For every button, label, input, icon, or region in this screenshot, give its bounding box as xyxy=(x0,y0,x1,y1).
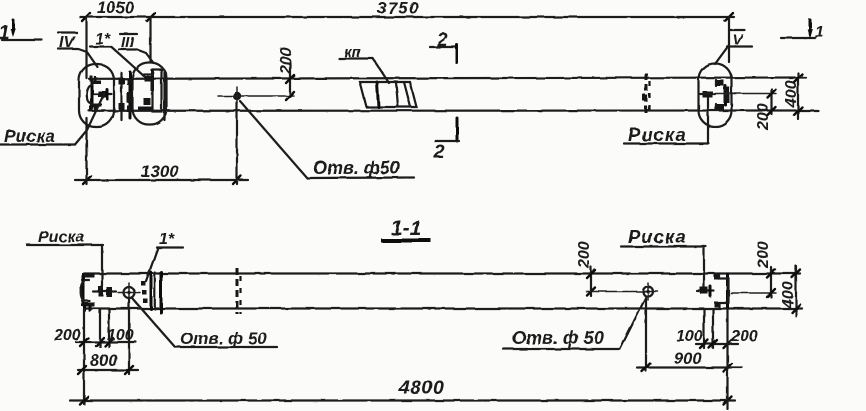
stud dots 1* (section left) xyxy=(141,281,148,303)
hole Отв ф50 (section right) xyxy=(586,283,658,300)
dimension 4800 xyxy=(70,309,735,409)
section mark 1 (top right) xyxy=(781,20,824,41)
dim 800 (section bottom left) xyxy=(78,299,138,374)
vertical dim 200 at hole (plan) xyxy=(278,47,295,100)
text Риска (section left) xyxy=(27,229,103,288)
svg-text:900: 900 xyxy=(674,350,702,368)
svg-text:200: 200 xyxy=(53,327,81,344)
riska mark right oval xyxy=(700,91,715,98)
svg-text:Отв. ф 50: Отв. ф 50 xyxy=(180,329,267,348)
label III xyxy=(119,34,154,63)
channel detail inside right oval xyxy=(716,80,730,110)
svg-text:Риска: Риска xyxy=(628,124,687,145)
svg-text:4800: 4800 xyxy=(398,377,444,399)
detail oval left (IV) xyxy=(79,64,114,127)
riska leader (plan right) xyxy=(707,98,709,144)
title 1-1 xyxy=(381,217,431,241)
svg-text:200: 200 xyxy=(730,328,758,345)
section mark 2 (upper) xyxy=(430,30,457,63)
detail oval second (III) xyxy=(133,63,167,125)
left end bracket detail inside oval IV xyxy=(87,76,102,113)
channel detail inside oval III xyxy=(138,69,165,120)
right end bracket (section) xyxy=(714,274,729,309)
dim 200 (section bottom left) xyxy=(53,309,136,404)
extension line at 1050 xyxy=(149,17,151,62)
text Риска (section right) xyxy=(621,226,706,288)
dimension line 1050 + 3750 xyxy=(80,13,734,21)
riska mark in oval IV xyxy=(94,90,112,99)
column body top line (plan view) xyxy=(89,78,806,79)
vertical dim 200 (section right) xyxy=(755,241,775,297)
extension line right end xyxy=(715,17,729,64)
svg-text:3750: 3750 xyxy=(377,0,420,18)
column body bottom line (plan view) xyxy=(89,109,818,112)
label 1* xyxy=(90,31,145,77)
embed end lines (section left) xyxy=(151,272,161,313)
dimension 1300 xyxy=(75,103,248,184)
vertical dim 400 (plan right) xyxy=(783,73,802,119)
svg-text:800: 800 xyxy=(90,352,118,370)
svg-text:1050: 1050 xyxy=(97,0,135,17)
section mark 2 (lower) xyxy=(433,118,459,163)
vertical dim 200 at right hole (section) xyxy=(576,241,595,296)
svg-text:Риска: Риска xyxy=(628,226,687,247)
left end bracket (section) xyxy=(81,273,95,311)
marking plate trapezoid xyxy=(360,82,417,107)
svg-text:200: 200 xyxy=(576,241,593,269)
svg-text:400: 400 xyxy=(783,80,800,108)
svg-text:1*: 1* xyxy=(159,231,175,248)
svg-text:1-1: 1-1 xyxy=(391,217,421,240)
riska mark (section right) xyxy=(697,287,714,297)
svg-text:400: 400 xyxy=(780,281,797,309)
svg-text:200: 200 xyxy=(755,103,772,131)
extension from riska for 200 dim (section right) xyxy=(731,292,776,294)
svg-text:200: 200 xyxy=(278,47,295,75)
hole in plan view xyxy=(218,87,294,105)
extension from riska for 200 dim (plan right) xyxy=(713,93,776,95)
detail oval right (V) xyxy=(699,64,732,127)
svg-text:1300: 1300 xyxy=(141,162,179,181)
vertical dim 400 (section right) xyxy=(780,266,800,316)
leader Отв ф50 (section left) xyxy=(132,298,277,347)
column body top line (section) xyxy=(84,272,800,274)
svg-text:Отв. ф50: Отв. ф50 xyxy=(313,158,400,178)
leader Отв ф50 (section right) xyxy=(503,297,646,349)
hole Отв ф50 (section left) xyxy=(118,283,140,302)
extension line left end xyxy=(85,17,87,78)
svg-text:100: 100 xyxy=(676,328,703,345)
label 1* (section) xyxy=(146,231,183,281)
hidden joint dashed line (plan) xyxy=(643,73,650,113)
dim 100/200 (section bottom right) xyxy=(676,309,758,348)
label V xyxy=(727,30,752,49)
riska mark (section left) xyxy=(93,287,116,298)
dim 900 (section bottom right) xyxy=(637,298,742,372)
svg-text:200: 200 xyxy=(755,241,772,269)
label кп xyxy=(339,44,389,83)
column body bottom line (section) xyxy=(84,307,802,309)
svg-text:1: 1 xyxy=(815,24,824,41)
svg-text:Риска: Риска xyxy=(38,229,85,246)
svg-text:1: 1 xyxy=(0,23,10,44)
text Риска (plan left) xyxy=(0,94,104,146)
hidden joint dashed line (section) xyxy=(237,268,241,314)
svg-text:2: 2 xyxy=(436,30,448,51)
svg-text:2: 2 xyxy=(433,142,445,163)
label IV xyxy=(58,33,98,68)
svg-text:Отв. ф 50: Отв. ф 50 xyxy=(512,328,604,348)
svg-text:Риска: Риска xyxy=(4,126,55,146)
leader Отв ф50 (plan) xyxy=(240,101,414,178)
vertical dim 200 (plan right) xyxy=(755,89,776,131)
end plate lines between ovals xyxy=(119,72,134,120)
section mark 1 (top left) xyxy=(0,20,42,44)
